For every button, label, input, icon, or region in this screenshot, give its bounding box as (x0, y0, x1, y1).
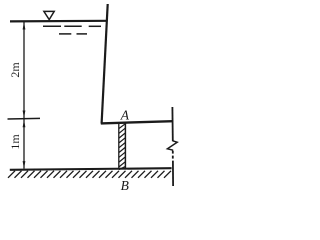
right wall lower dashes (172, 151, 174, 186)
svg-text:A: A (120, 108, 130, 123)
svg-text:2m: 2m (8, 62, 22, 78)
water dashes row 1 (43, 25, 101, 27)
arrowhead up (below tick) (23, 120, 26, 127)
arrowhead up (at water surface) (23, 22, 26, 29)
right wall upper segment (171, 107, 173, 141)
water dashes row 2 (59, 33, 87, 35)
right wall break (zigzag) (167, 141, 177, 150)
tick between 2m and 1m (8, 117, 41, 120)
arrowhead down (above tick) (23, 111, 26, 118)
gate column right edge (124, 124, 126, 170)
svg-text:B: B (121, 178, 129, 193)
gate column left edge (118, 124, 120, 170)
gate hatching (119, 124, 125, 170)
dimension line (vertical) (23, 22, 25, 169)
ground line (10, 168, 172, 170)
svg-text:1m: 1m (8, 134, 22, 150)
arrowhead down (at ground) (23, 161, 26, 168)
ground hatching (8, 171, 171, 178)
tank right wall (102, 4, 108, 124)
water surface symbol (nabla) (44, 11, 54, 19)
ledge line (A level shelf) (101, 121, 173, 123)
water surface line (10, 20, 107, 23)
